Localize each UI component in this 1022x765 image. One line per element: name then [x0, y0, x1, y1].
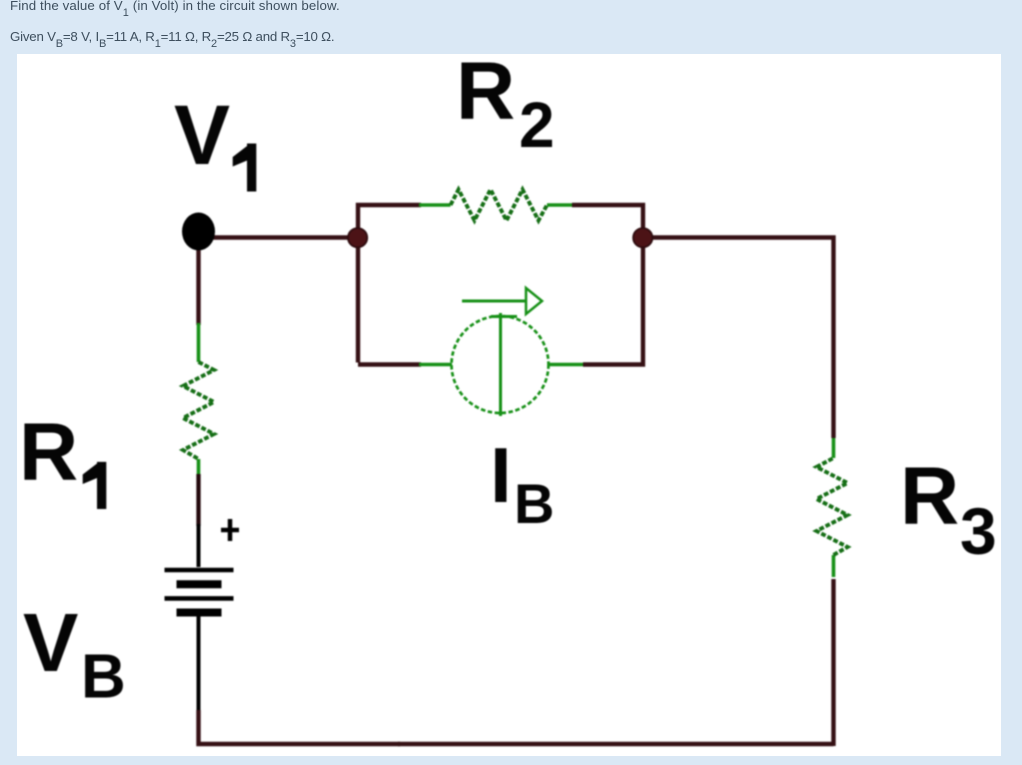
- question line 2: [10, 28, 334, 46]
- right wire top segment (maroon): [641, 238, 834, 439]
- battery lead bottom (black): [197, 616, 201, 712]
- right wire bottom segment (maroon): [831, 579, 835, 746]
- wire node to left junction: [199, 235, 359, 239]
- svg-text:3: 3: [960, 494, 997, 568]
- inner loop top-right corner: [572, 205, 643, 365]
- label R1: [19, 407, 106, 509]
- current source IB bar: [491, 313, 517, 416]
- current source IB circle: [452, 316, 549, 413]
- resistor R2 (green, with leads): [419, 190, 574, 221]
- resistor R3 (green, with leads): [817, 436, 848, 577]
- label VB: [23, 596, 126, 712]
- bottom wire: [398, 742, 834, 746]
- svg-text:R: R: [456, 46, 515, 137]
- svg-text:V: V: [23, 596, 78, 689]
- current direction arrow (green): [462, 288, 542, 314]
- right junction dot: [633, 228, 652, 247]
- node V1 (black dot): [182, 213, 215, 251]
- svg-text:V: V: [174, 88, 230, 182]
- label IB: [490, 431, 554, 535]
- wire battery to bottom-left corner (maroon): [199, 710, 401, 744]
- resistor R1 (green, with leads): [183, 323, 214, 476]
- wire node down (maroon): [196, 245, 200, 325]
- svg-text:B: B: [81, 643, 126, 712]
- left junction dot: [348, 228, 367, 247]
- svg-text:R: R: [19, 407, 78, 498]
- svg-text:B: B: [514, 472, 554, 535]
- wire R1 to battery (maroon): [196, 474, 200, 526]
- svg-text:2: 2: [519, 89, 555, 161]
- label V1: [174, 88, 256, 192]
- label R3: [900, 451, 997, 568]
- svg-text:I: I: [490, 431, 512, 519]
- inner loop bottom-left segment: [358, 362, 421, 366]
- current source IB leads (green): [419, 363, 583, 366]
- battery VB plates: [165, 570, 234, 613]
- label R2: [456, 46, 555, 161]
- question line 1: [10, 0, 340, 15]
- plus sign: [221, 519, 239, 541]
- inner loop left side: [358, 205, 421, 363]
- battery VB lead top (black): [197, 524, 201, 567]
- svg-text:R: R: [900, 451, 959, 542]
